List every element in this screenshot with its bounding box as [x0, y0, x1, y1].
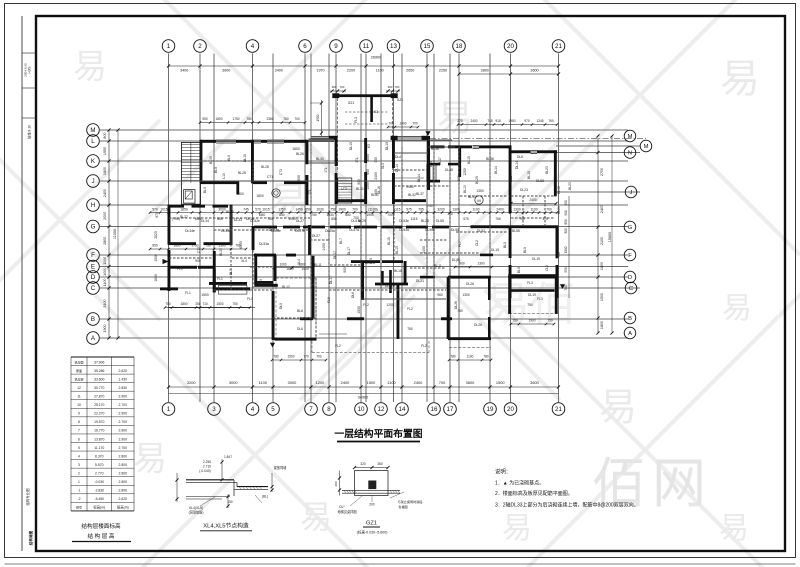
svg-text:-5.450: -5.450 — [94, 497, 104, 501]
svg-text:750: 750 — [547, 318, 553, 322]
svg-text:780: 780 — [483, 354, 489, 358]
svg-text:层号: 层号 — [76, 505, 82, 510]
svg-text:3．2轴DL33上部分为后浇砌连续上墙，配筋中8@200双层: 3．2轴DL33上部分为后浇砌连续上墙，配筋中8@200双层双向。 — [495, 502, 639, 509]
svg-text:BL23: BL23 — [545, 166, 549, 174]
svg-text:14: 14 — [399, 406, 406, 413]
svg-text:(BL): (BL) — [262, 495, 268, 499]
interior dimension band mid — [149, 207, 559, 213]
svg-text:2: 2 — [78, 471, 80, 475]
svg-text:800: 800 — [103, 132, 107, 138]
svg-text:7: 7 — [309, 406, 313, 413]
svg-text:750: 750 — [527, 303, 533, 307]
svg-text:DL26: DL26 — [466, 282, 474, 286]
svg-text:150: 150 — [227, 500, 233, 504]
svg-text:BL19: BL19 — [557, 186, 561, 194]
svg-text:FL1: FL1 — [247, 297, 253, 301]
svg-text:750: 750 — [232, 302, 238, 306]
right dimension column — [564, 134, 614, 334]
svg-text:GZ1: GZ1 — [366, 521, 377, 527]
svg-text:3: 3 — [212, 406, 216, 413]
svg-text:DL15: DL15 — [385, 142, 389, 150]
svg-text:层高(m): 层高(m) — [117, 505, 129, 510]
svg-text:6: 6 — [303, 43, 307, 50]
svg-text:DL26: DL26 — [474, 323, 482, 327]
svg-text:1500: 1500 — [201, 293, 209, 297]
svg-text:850: 850 — [564, 219, 568, 225]
svg-text:机房面: 机房面 — [74, 359, 83, 364]
svg-text:2.250: 2.250 — [203, 460, 211, 464]
svg-text:1850: 1850 — [154, 274, 158, 282]
elevator box — [184, 190, 195, 204]
title strip text — [24, 63, 34, 546]
svg-text:740: 740 — [519, 217, 525, 221]
svg-text:FL3: FL3 — [527, 281, 533, 285]
svg-text:1950: 1950 — [508, 119, 515, 123]
svg-text:DL34e: DL34e — [185, 229, 195, 233]
svg-text:DL17: DL17 — [347, 247, 351, 255]
svg-text:FL3: FL3 — [354, 117, 358, 123]
svg-text:1: 1 — [78, 480, 80, 484]
svg-text:4: 4 — [251, 406, 255, 413]
svg-text:700: 700 — [439, 380, 446, 385]
svg-text:DL14: DL14 — [515, 161, 519, 169]
svg-text:30.770: 30.770 — [94, 386, 104, 390]
svg-text:1800: 1800 — [600, 321, 604, 329]
beam labels — [154, 142, 572, 348]
svg-text:250: 250 — [195, 302, 201, 306]
svg-text:DL*: DL* — [339, 505, 345, 509]
svg-text:C: C — [629, 286, 633, 292]
svg-text:CT3: CT3 — [279, 169, 283, 175]
svg-text:G: G — [91, 224, 96, 231]
svg-text:易: 易 — [73, 48, 107, 86]
svg-text:6000: 6000 — [239, 241, 243, 249]
svg-text:DL33e: DL33e — [221, 229, 231, 233]
svg-text:300: 300 — [388, 85, 393, 89]
detail XL4 XL5 — [175, 455, 287, 515]
svg-text:1100: 1100 — [530, 207, 537, 211]
svg-text:3600: 3600 — [530, 380, 539, 385]
svg-text:5: 5 — [271, 406, 275, 413]
svg-text:(洞顶加筋): (洞顶加筋) — [189, 510, 204, 515]
svg-text:1100: 1100 — [376, 69, 384, 73]
svg-text:与架立梁同时淌捣: 与架立梁同时淌捣 — [398, 499, 423, 504]
svg-text:易: 易 — [722, 292, 752, 325]
svg-text:2360: 2360 — [266, 117, 273, 121]
svg-text:BL28: BL28 — [421, 219, 429, 223]
svg-text:1800: 1800 — [103, 167, 107, 175]
svg-text:1500: 1500 — [367, 380, 376, 385]
svg-text:8: 8 — [327, 406, 331, 413]
interior dimension band right upper — [387, 119, 559, 128]
drawing title — [334, 427, 422, 442]
svg-text:地梯见桌拌图: 地梯见桌拌图 — [337, 509, 356, 514]
svg-text:XL3: XL3 — [381, 163, 385, 169]
svg-text:DL55: DL55 — [436, 219, 444, 223]
svg-text:BL26: BL26 — [238, 171, 246, 175]
svg-text:CL2: CL2 — [475, 240, 479, 246]
svg-text:22.270: 22.270 — [94, 412, 104, 416]
svg-text:易: 易 — [133, 440, 167, 478]
svg-text:575: 575 — [406, 207, 412, 211]
svg-text:2.800: 2.800 — [119, 429, 128, 433]
svg-text:1300: 1300 — [366, 182, 370, 190]
svg-text:(1100): (1100) — [368, 207, 377, 211]
svg-text:1300: 1300 — [513, 207, 521, 211]
svg-text:270: 270 — [457, 119, 463, 123]
svg-text:750: 750 — [237, 287, 243, 291]
svg-text:机房层: 机房层 — [74, 376, 83, 381]
svg-text:2360: 2360 — [218, 244, 225, 248]
svg-text:750: 750 — [267, 217, 273, 221]
svg-text:DL6: DL6 — [517, 155, 523, 159]
svg-text:LT2: LT2 — [341, 187, 347, 191]
svg-text:800: 800 — [457, 175, 461, 181]
top dimension line — [167, 56, 560, 76]
vertical grid lines — [169, 54, 559, 403]
svg-text:BL5: BL5 — [523, 247, 527, 253]
svg-text:1100: 1100 — [467, 354, 474, 358]
svg-text:745: 745 — [243, 207, 249, 211]
svg-text:CL3: CL3 — [259, 279, 263, 285]
svg-text:K3: K3 — [374, 110, 378, 114]
svg-text:575: 575 — [463, 217, 469, 221]
svg-text:易: 易 — [300, 499, 332, 535]
svg-text:BL36: BL36 — [431, 147, 439, 151]
svg-text:18: 18 — [456, 43, 463, 50]
svg-text:1245: 1245 — [536, 119, 543, 123]
svg-text:1200: 1200 — [316, 380, 325, 385]
svg-text:2650: 2650 — [406, 69, 414, 73]
svg-text:FL5: FL5 — [327, 297, 331, 303]
svg-text:DL25a: DL25a — [325, 229, 335, 233]
svg-text:2．楼面标高及板厚见配筋平面图。: 2．楼面标高及板厚见配筋平面图。 — [495, 490, 573, 497]
svg-text:16: 16 — [431, 406, 438, 413]
svg-text:易: 易 — [720, 57, 760, 101]
svg-text:1100: 1100 — [103, 257, 107, 265]
svg-text:BL10: BL10 — [395, 246, 399, 254]
svg-text:5.570: 5.570 — [95, 463, 104, 467]
svg-text:1500: 1500 — [357, 306, 361, 314]
svg-text:1: 1 — [167, 406, 171, 413]
svg-text:BL37: BL37 — [416, 192, 424, 196]
svg-text:M50: M50 — [195, 217, 202, 221]
svg-text:1115: 1115 — [411, 217, 418, 221]
svg-text:2400: 2400 — [600, 205, 604, 213]
svg-text:FL2: FL2 — [421, 344, 427, 348]
svg-text:2.800: 2.800 — [119, 454, 128, 458]
svg-text:1750: 1750 — [278, 207, 286, 211]
svg-text:2400: 2400 — [374, 172, 378, 180]
svg-text:750: 750 — [311, 213, 317, 217]
svg-text:4: 4 — [78, 454, 80, 458]
svg-text:1115: 1115 — [394, 207, 401, 211]
svg-text:DL6: DL6 — [297, 327, 303, 331]
svg-text:9: 9 — [78, 412, 80, 416]
svg-text:E: E — [91, 264, 95, 271]
svg-text:BL29: BL29 — [226, 210, 234, 214]
svg-text:DL58: DL58 — [536, 179, 544, 183]
svg-text:950: 950 — [202, 117, 208, 121]
svg-text:1000: 1000 — [399, 121, 406, 125]
storey level table — [71, 357, 134, 511]
svg-text:15: 15 — [424, 43, 431, 50]
svg-text:850: 850 — [305, 207, 311, 211]
svg-text:DL19: DL19 — [532, 257, 540, 261]
svg-text:1．▲ 为已浇砌基点。: 1．▲ 为已浇砌基点。 — [495, 480, 544, 487]
svg-text:2.710: 2.710 — [203, 465, 211, 469]
svg-text:1400: 1400 — [422, 246, 426, 254]
svg-text:BL9: BL9 — [203, 187, 207, 193]
interior dimension band lower-left — [149, 244, 255, 309]
svg-text:说明：: 说明： — [495, 468, 511, 476]
svg-text:710: 710 — [202, 302, 208, 306]
svg-text:D: D — [91, 274, 96, 281]
svg-text:300: 300 — [332, 85, 337, 89]
shear walls upper-left wing — [200, 140, 309, 205]
svg-text:DL19: DL19 — [528, 293, 536, 297]
svg-text:3600: 3600 — [222, 69, 230, 73]
svg-text:27.870: 27.870 — [94, 395, 104, 399]
svg-text:170: 170 — [542, 217, 548, 221]
svg-text:700: 700 — [412, 121, 418, 125]
svg-text:3000: 3000 — [288, 380, 297, 385]
svg-text:5: 5 — [78, 446, 80, 450]
svg-text:2800: 2800 — [103, 237, 107, 245]
svg-text:1800: 1800 — [236, 192, 244, 196]
svg-text:9: 9 — [334, 43, 338, 50]
svg-text:850: 850 — [217, 217, 223, 221]
svg-text:DL9: DL9 — [279, 303, 283, 309]
svg-text:FL3: FL3 — [537, 297, 543, 301]
svg-text:-2: -2 — [77, 497, 80, 501]
svg-text:900: 900 — [343, 267, 347, 273]
svg-text:3000: 3000 — [229, 380, 238, 385]
detail GZ1 — [334, 462, 422, 514]
svg-text:FL2: FL2 — [363, 303, 369, 307]
svg-text:结构专业图: 结构专业图 — [25, 488, 30, 506]
svg-text:3600: 3600 — [466, 380, 475, 385]
svg-text:2700: 2700 — [600, 168, 604, 176]
svg-text:700: 700 — [340, 85, 345, 89]
svg-text:10: 10 — [77, 403, 81, 407]
svg-text:DL55e: DL55e — [425, 228, 435, 232]
svg-text:L: L — [91, 138, 95, 145]
svg-text:320: 320 — [360, 462, 366, 466]
svg-text:2.900: 2.900 — [119, 412, 128, 416]
svg-text:BL5: BL5 — [517, 267, 521, 273]
right axis circles — [624, 130, 652, 339]
svg-text:BL11: BL11 — [434, 264, 442, 268]
svg-text:780: 780 — [407, 327, 413, 331]
svg-text:DL15: DL15 — [335, 158, 339, 166]
horizontal grid lines — [100, 130, 640, 338]
svg-text:550: 550 — [564, 267, 568, 273]
svg-text:360: 360 — [377, 462, 383, 466]
svg-text:900: 900 — [564, 210, 568, 216]
svg-text:3800: 3800 — [481, 69, 489, 73]
svg-text:570: 570 — [152, 207, 158, 211]
svg-text:600: 600 — [366, 169, 370, 175]
svg-text:DL53a: DL53a — [259, 242, 269, 246]
svg-text:1000: 1000 — [279, 262, 286, 266]
interior partition lines — [168, 140, 556, 338]
svg-text:1300: 1300 — [452, 207, 460, 211]
svg-text:2.700: 2.700 — [119, 420, 128, 424]
svg-text:1500: 1500 — [600, 293, 604, 301]
svg-text:1900: 1900 — [366, 213, 374, 217]
svg-text:GZ1: GZ1 — [397, 98, 404, 102]
svg-text:2400: 2400 — [414, 380, 423, 385]
svg-text:F: F — [628, 253, 632, 259]
svg-text:1200: 1200 — [386, 303, 394, 307]
svg-text:BL7: BL7 — [339, 238, 343, 244]
shear walls upper-right wing — [427, 136, 557, 196]
svg-text:DL27: DL27 — [296, 219, 304, 223]
svg-text:DL41B: DL41B — [365, 261, 376, 265]
svg-text:2.620: 2.620 — [119, 497, 128, 501]
M-axis dashed line right — [430, 138, 646, 140]
svg-text:300: 300 — [564, 228, 568, 234]
svg-text:BL17: BL17 — [438, 157, 442, 165]
top wall band between axes 6-9 and 13-15 — [311, 136, 428, 140]
svg-text:BL30: BL30 — [209, 156, 213, 164]
svg-text:L13: L13 — [222, 173, 226, 179]
svg-text:L13: L13 — [429, 161, 433, 167]
svg-text:BL25: BL25 — [475, 176, 479, 184]
svg-text:DL53a: DL53a — [399, 228, 409, 232]
svg-text:XL4: XL4 — [297, 259, 301, 265]
svg-text:M: M — [628, 134, 633, 140]
svg-text:BL9: BL9 — [214, 167, 218, 173]
svg-text:1350: 1350 — [476, 189, 484, 193]
svg-text:550: 550 — [564, 200, 568, 206]
svg-text:J: J — [630, 190, 633, 196]
balcony box lower-left — [218, 262, 314, 294]
bay outlines and balconies — [276, 278, 557, 353]
svg-text:DL15: DL15 — [349, 142, 353, 150]
svg-text:2400: 2400 — [470, 119, 477, 123]
svg-text:1600: 1600 — [292, 147, 300, 151]
svg-text:960: 960 — [459, 262, 465, 266]
svg-text:900: 900 — [374, 189, 378, 195]
window triple lines right wing — [309, 139, 538, 154]
svg-text:2100: 2100 — [600, 237, 604, 245]
svg-text:FL1: FL1 — [177, 267, 183, 271]
svg-text:A: A — [628, 331, 632, 337]
svg-text:1250: 1250 — [463, 168, 467, 176]
svg-text:900: 900 — [297, 175, 301, 181]
svg-text:1100: 1100 — [387, 380, 396, 385]
svg-text:1909: 1909 — [301, 267, 309, 271]
svg-text:DL41B: DL41B — [385, 284, 396, 288]
svg-text:2.800: 2.800 — [119, 471, 128, 475]
svg-text:915: 915 — [495, 119, 501, 123]
svg-text:BL31: BL31 — [356, 187, 364, 191]
svg-text:35.286: 35.286 — [94, 369, 104, 373]
svg-text:2004.8.30: 2004.8.30 — [24, 63, 28, 77]
svg-text:700: 700 — [395, 85, 400, 89]
svg-text:700: 700 — [546, 207, 552, 211]
svg-text:750: 750 — [512, 318, 518, 322]
svg-text:26900: 26900 — [371, 56, 382, 60]
svg-text:850: 850 — [152, 244, 158, 248]
svg-text:1900: 1900 — [528, 318, 535, 322]
left dimension column — [103, 128, 120, 339]
svg-text:970: 970 — [524, 119, 530, 123]
svg-text:8.370: 8.370 — [95, 454, 104, 458]
svg-text:20: 20 — [507, 406, 514, 413]
svg-text:4: 4 — [251, 43, 255, 50]
svg-text:780: 780 — [450, 354, 456, 358]
left axis circles — [87, 124, 100, 345]
svg-text:570: 570 — [255, 207, 261, 211]
svg-text:XL4,XL5节点构造: XL4,XL5节点构造 — [203, 522, 249, 530]
svg-text:850: 850 — [331, 217, 337, 221]
svg-text:DL17: DL17 — [329, 276, 333, 284]
svg-text:1TL: 1TL — [308, 189, 312, 195]
svg-text:750: 750 — [457, 309, 463, 313]
svg-text:BL9: BL9 — [227, 155, 231, 161]
svg-text:13: 13 — [390, 43, 397, 50]
interior dimension rows lower bays — [271, 198, 558, 361]
svg-text:34900: 34900 — [358, 395, 369, 399]
top axis circles — [162, 40, 565, 53]
svg-text:750: 750 — [246, 117, 252, 121]
svg-text:3400: 3400 — [180, 69, 188, 73]
svg-text:2.700: 2.700 — [119, 446, 128, 450]
svg-text:16.770: 16.770 — [94, 429, 104, 433]
svg-text:DL14: DL14 — [417, 174, 421, 182]
title strip line — [22, 16, 36, 551]
svg-text:BL27: BL27 — [180, 215, 188, 219]
svg-text:BL6: BL6 — [297, 309, 303, 313]
svg-text:780: 780 — [273, 354, 279, 358]
svg-text:1970: 1970 — [316, 69, 324, 73]
svg-text:17: 17 — [447, 406, 454, 413]
svg-text:一层结构平面布置图: 一层结构平面布置图 — [334, 427, 422, 440]
svg-text:11.170: 11.170 — [94, 446, 104, 450]
svg-text:BL16: BL16 — [394, 269, 402, 273]
G axis wall band — [254, 226, 449, 229]
svg-text:2.700: 2.700 — [119, 403, 128, 407]
staircase center — [338, 178, 352, 203]
svg-text:BL36: BL36 — [486, 157, 494, 161]
svg-text:1300: 1300 — [462, 293, 470, 297]
svg-text:1: 1 — [167, 43, 171, 50]
svg-text:DL26: DL26 — [454, 301, 458, 309]
svg-text:770: 770 — [303, 354, 309, 358]
staircase upper-left — [181, 142, 200, 204]
svg-text:1500: 1500 — [216, 302, 223, 306]
svg-text:BL55: BL55 — [512, 229, 520, 233]
svg-text:结构层楼面标高: 结构层楼面标高 — [81, 522, 121, 530]
svg-text:(标高-0.030~5.600): (标高-0.030~5.600) — [357, 530, 388, 535]
shear walls lower bays — [213, 270, 558, 341]
svg-text:1800: 1800 — [173, 244, 180, 248]
svg-text:(-0.040): (-0.040) — [199, 469, 211, 473]
svg-text:DL23: DL23 — [520, 188, 528, 192]
svg-text:DL1a: DL1a — [246, 217, 254, 221]
svg-text:2200: 2200 — [347, 69, 355, 73]
svg-text:170: 170 — [447, 212, 453, 216]
svg-text:DL4: DL4 — [395, 155, 401, 159]
svg-text:1000: 1000 — [103, 268, 107, 276]
svg-text:-0.030: -0.030 — [94, 480, 104, 484]
bottom axis circles — [162, 403, 565, 416]
svg-text:2250: 2250 — [439, 69, 447, 73]
svg-text:700: 700 — [387, 213, 393, 217]
